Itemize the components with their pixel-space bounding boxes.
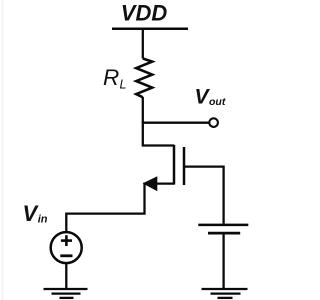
- VDD rail: [112, 27, 188, 30]
- wire source to Vin: [66, 184, 174, 233]
- wire battery to ground: [222, 233, 224, 288]
- wire node to drain: [143, 121, 174, 146]
- voltage source Vin circle: [51, 232, 82, 263]
- Vin source plus sign: [61, 235, 72, 246]
- battery VB bottom plate: [208, 232, 240, 235]
- resistor RL: [136, 59, 152, 98]
- wire resistor to Vout node: [142, 97, 144, 123]
- wire VDD rail to resistor: [142, 29, 144, 59]
- ground (right, battery): [202, 289, 248, 298]
- ground (left, Vin): [44, 289, 88, 298]
- wire gate to battery: [184, 167, 224, 224]
- battery VB top plate: [198, 224, 248, 227]
- output terminal circle: [209, 118, 218, 127]
- transistor M1 source arrow: [143, 176, 158, 191]
- wire Vout node to output terminal: [143, 122, 209, 124]
- transistor M1 channel bar: [173, 145, 176, 185]
- Vin source minus sign: [60, 254, 72, 257]
- wire Vin source to ground: [65, 263, 67, 288]
- svg-text:VDD: VDD: [121, 1, 168, 26]
- transistor M1 gate plate: [183, 147, 186, 185]
